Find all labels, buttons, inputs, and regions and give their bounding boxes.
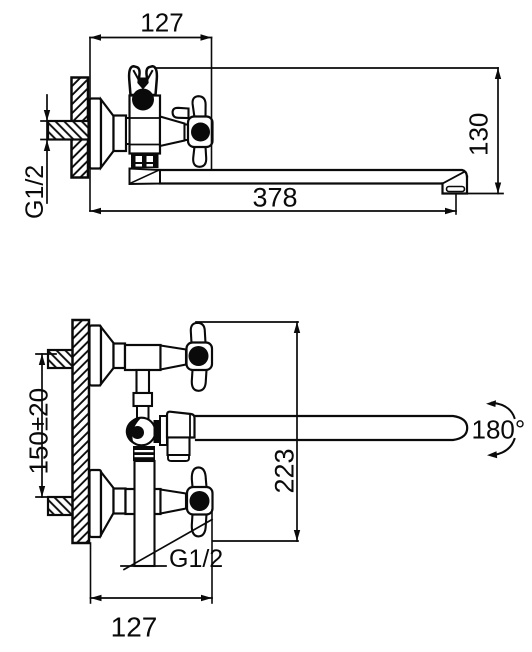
body internal line upper (130, 117, 161, 119)
handle center cap (black) (191, 123, 210, 142)
neck above ball (137, 406, 149, 420)
tick bottom (36, 496, 56, 498)
elbow inner line (189, 415, 191, 438)
dim 127: left extension line (89, 38, 91, 212)
arrow right (201, 595, 212, 601)
collar (134, 393, 153, 406)
dim 130 line (497, 68, 499, 194)
hook ball (black) (132, 89, 154, 111)
thread connector (black block) (131, 153, 159, 169)
fork V notch shading (139, 78, 148, 88)
thread white square 1 (136, 156, 143, 162)
arrow right (445, 208, 456, 214)
upper handle hub (187, 343, 213, 371)
dim 127: left extension line (90, 543, 92, 603)
arrow left (90, 34, 101, 40)
dim 127: right extension line (211, 510, 213, 603)
lower handle top spoke (192, 467, 207, 487)
handle neck (185, 125, 191, 141)
lower escutcheon nut (114, 489, 126, 514)
flare diagonal (131, 171, 158, 184)
thread white slit 3 (136, 164, 143, 167)
spout elbow lower (168, 438, 190, 456)
thread white slit 4 (147, 164, 154, 167)
wall plate (hatched) (72, 78, 89, 178)
escutcheon flange (90, 99, 102, 169)
arrow up (294, 322, 300, 333)
ref line bottom (outlet to 130 dim) (467, 193, 503, 195)
thread block (black) (133, 446, 155, 461)
upper handle top spoke (191, 323, 206, 343)
wall plate (hatched) (73, 320, 90, 543)
ref line top (hook top to 130 dim) (155, 67, 498, 69)
arrow down (39, 486, 45, 497)
cartridge (tilted) (160, 117, 185, 147)
arrow up to pipe bottom (44, 140, 50, 151)
lower supply pipe (hatched) (48, 497, 74, 515)
thread slit 2 (135, 455, 154, 457)
spout elbow upper (167, 412, 195, 438)
body left boss (126, 118, 130, 144)
ref line to handle top (196, 321, 298, 323)
pipe bottom tick (121, 565, 166, 567)
elbow connector strip (160, 416, 167, 445)
upper supply pipe (hatched) (48, 350, 74, 368)
upper cartridge (tilted) (161, 346, 187, 370)
spout outlet box (443, 177, 468, 194)
spout flare (130, 169, 161, 185)
dim G1/2 leader line (46, 95, 48, 203)
arrow up (495, 68, 501, 79)
shower pipe (in front of lower valve) (135, 461, 155, 566)
aerator slot (447, 187, 465, 192)
shower-hook fork (129, 66, 157, 95)
arrow left (90, 208, 101, 214)
supply pipe through wall (hatched) (48, 121, 89, 140)
arrow up (39, 354, 45, 365)
handle bottom spoke (193, 147, 206, 167)
svg-text:130: 130 (464, 113, 494, 156)
lower escutcheon cone (101, 472, 114, 535)
svg-text:127: 127 (140, 8, 183, 38)
ball dark crescent (126, 418, 141, 444)
lower escutcheon flange (90, 470, 102, 537)
svg-text:G1/2: G1/2 (169, 545, 223, 573)
thread white square 2 (147, 156, 154, 162)
lower handle bottom spoke (192, 514, 207, 536)
tick pipe bottom (41, 139, 55, 141)
upper escutcheon cone (101, 327, 114, 384)
svg-text:378: 378 (252, 183, 297, 213)
lower valve body (126, 489, 161, 514)
svg-text:150±20: 150±20 (24, 388, 54, 475)
rotation arrow top (492, 403, 515, 418)
body internal line lower (130, 144, 161, 146)
dim 127 line (91, 597, 213, 599)
rotation arrow bottom (493, 439, 515, 455)
down tube from upper valve (137, 370, 150, 393)
lower handle hub (187, 487, 213, 515)
dim 127: right extension line (211, 38, 213, 171)
dim 378 line (90, 210, 456, 212)
svg-text:127: 127 (111, 612, 158, 643)
svg-text:180°: 180° (472, 415, 526, 445)
fork inner shade right (146, 71, 153, 83)
upper escutcheon flange (90, 326, 102, 386)
upper escutcheon nut (114, 344, 126, 369)
arrow right (201, 34, 212, 40)
spout tube bottom edge (160, 182, 442, 184)
escutcheon cone (101, 100, 114, 168)
dim 150±20 line (41, 354, 43, 497)
arrow left (91, 595, 102, 601)
label G1/2 leader (124, 520, 212, 570)
swivel spout tube (196, 416, 467, 440)
valve body (130, 96, 161, 154)
handle hub (188, 117, 213, 148)
spout tube top edge (157, 170, 467, 177)
fork inner shade left (134, 71, 141, 83)
handle left lobe (173, 108, 189, 118)
elbow bottom band (168, 455, 189, 461)
upper valve body (125, 345, 161, 370)
dim 127 line (90, 37, 212, 39)
ball-elbow junction shade (154, 420, 161, 443)
arrow down to pipe top (44, 110, 50, 121)
ball joint (128, 418, 156, 446)
upper handle center cap (black) (189, 346, 209, 366)
thread slit 1 (135, 450, 154, 452)
escutcheon nut (114, 116, 127, 152)
dim 378: right extension line (455, 194, 457, 214)
tick top (36, 353, 56, 355)
lower handle center cap (black) (190, 491, 210, 511)
arrow down (294, 530, 300, 541)
svg-text:G1/2: G1/2 (21, 165, 49, 219)
lower cartridge (tilted) (161, 490, 187, 514)
dim 223 line (296, 322, 298, 541)
ref line bottom (lower valve) (213, 540, 298, 542)
handle top spoke (193, 96, 206, 117)
upper handle bottom spoke (192, 370, 207, 391)
svg-text:223: 223 (270, 448, 300, 493)
tick pipe top (41, 120, 55, 122)
spout end bevel (443, 172, 465, 184)
arrow down (495, 183, 501, 194)
